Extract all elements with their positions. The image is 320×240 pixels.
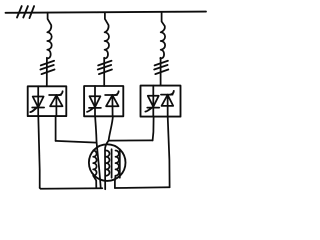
wire branch2 to box V2 (103, 58, 105, 86)
three-phase slash marks on bus (17, 6, 34, 18)
thyristor valve box V1 (28, 86, 67, 116)
wire node A horizontal (56, 141, 97, 143)
three-phase slash marks branch 1 (40, 61, 54, 74)
three-phase slash marks branch 2 (98, 61, 112, 74)
thyristor valve box V2 (84, 86, 123, 116)
three-phase slash marks branch 3 (154, 61, 168, 74)
bus (three-phase supply line) (6, 12, 207, 13)
thyristor V3a (conducting down) (145, 86, 159, 117)
thyristor V3b (conducting up) (161, 91, 174, 117)
wire box2 right output down (109, 116, 113, 140)
wire branch1 to box V1 (46, 58, 48, 87)
wire box3 right output down (168, 117, 170, 188)
wire box1 left output down to bottom (38, 116, 39, 188)
wire node B horizontal (109, 139, 153, 141)
inductor L3 (branch 3 reactor coil) (160, 12, 165, 58)
wire bottom right run (115, 186, 170, 189)
wire winding W2 tail (105, 141, 109, 190)
winding W1 (93, 151, 96, 189)
thyristor V1b (conducting up) (49, 91, 63, 116)
wire branch3 to box V3 (160, 58, 162, 86)
transformer T (circle) (89, 144, 126, 181)
wire box3 left output down (153, 117, 154, 141)
wire box2 left output feed through transformer (95, 116, 101, 188)
wire bottom left run (40, 187, 103, 190)
thyristor valve box V3 (141, 86, 181, 117)
inductor L1 (branch 1 reactor coil) (47, 13, 52, 59)
winding W3 (115, 149, 120, 188)
winding W2 (106, 149, 112, 178)
thyristor V2a (conducting down) (87, 86, 101, 116)
wire box1 right output down (55, 116, 57, 141)
inductor L2 (branch 2 reactor coil) (104, 12, 109, 58)
thyristor V1a (conducting down) (30, 86, 44, 116)
thyristor V2b (conducting up) (105, 91, 119, 116)
